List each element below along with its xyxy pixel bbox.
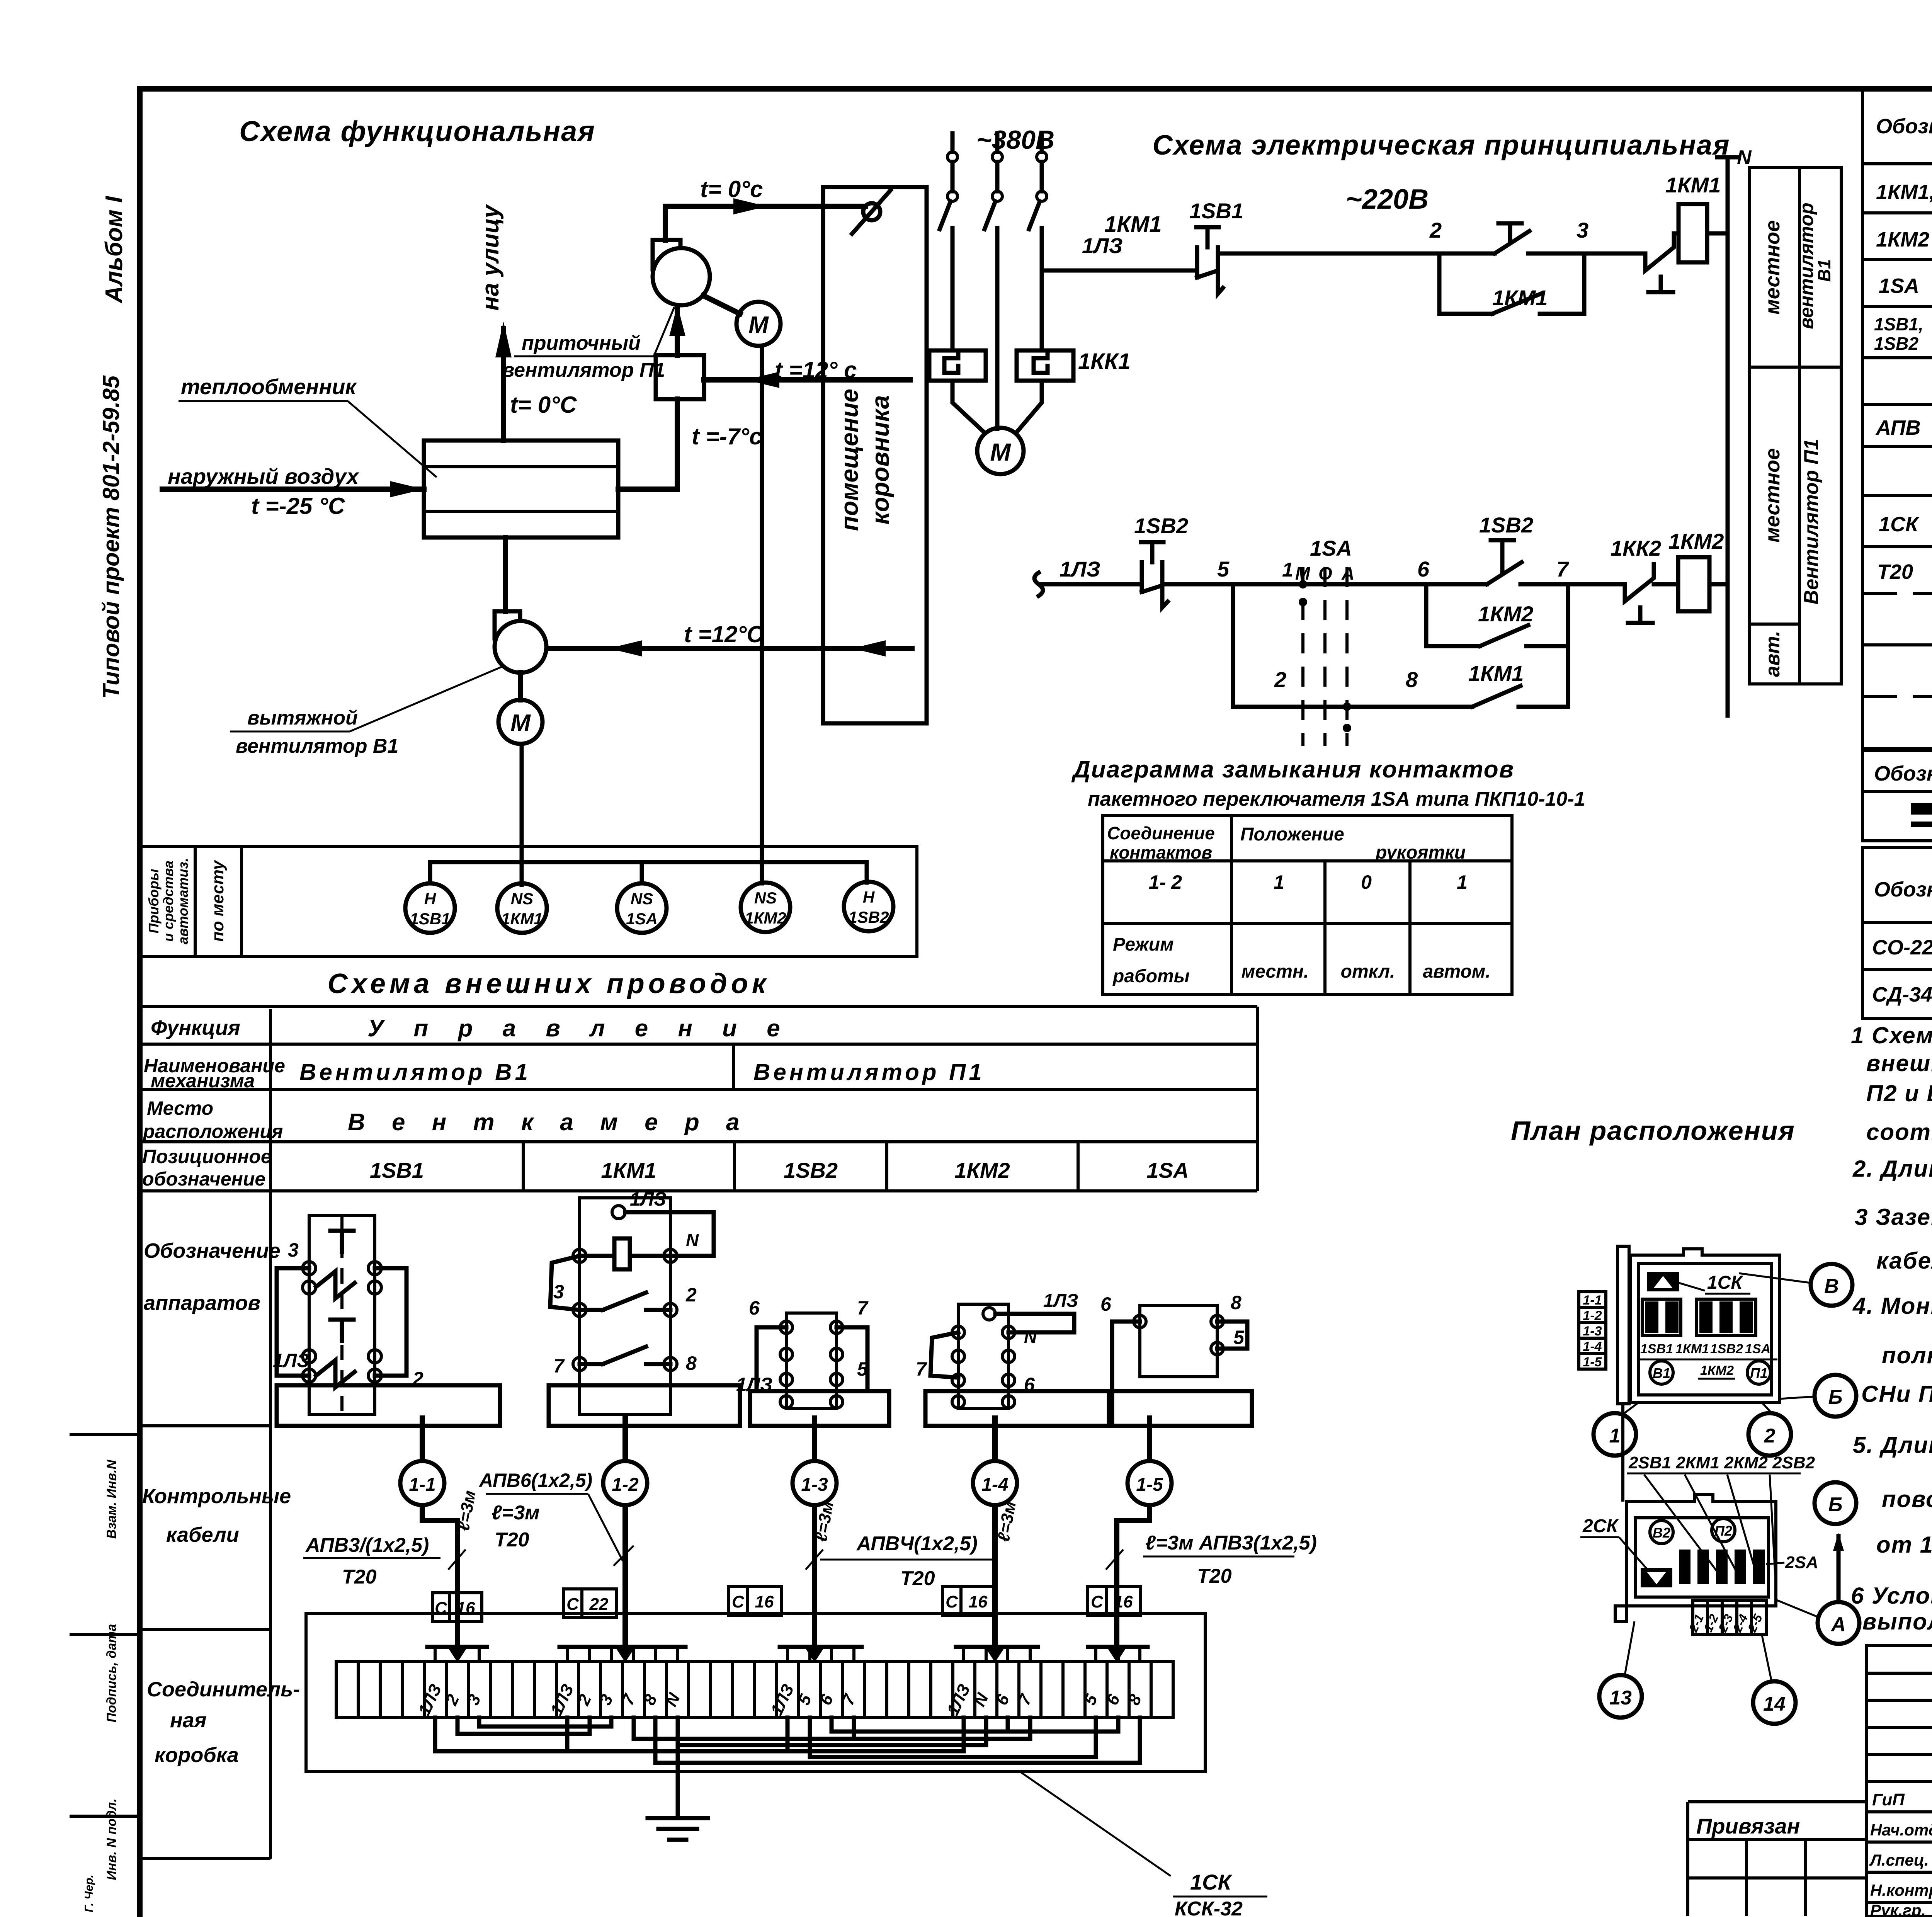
svg-text:1-3: 1-3 bbox=[801, 1475, 828, 1495]
svg-text:t =-25 °С: t =-25 °С bbox=[251, 493, 345, 519]
1SB1 button unit 2 actuator bbox=[340, 1320, 344, 1341]
svg-text:7: 7 bbox=[916, 1358, 927, 1380]
svg-text:механизма: механизма bbox=[151, 1070, 255, 1092]
svg-text:выполнены в соответствии с: выполнены в соответствии с ОСТ 36.27-77. bbox=[1862, 1609, 1932, 1635]
svg-text:NS: NS bbox=[511, 890, 533, 908]
motor M of P1 link bbox=[703, 296, 740, 314]
svg-text:1: 1 bbox=[1457, 871, 1468, 893]
wire to coil 1KM2 bbox=[1654, 582, 1678, 587]
margin tick bbox=[70, 1433, 140, 1436]
svg-text:Вентилятор П1: Вентилятор П1 bbox=[753, 1059, 985, 1085]
col sep B1/P1 bbox=[732, 1044, 735, 1090]
svg-text:1SА: 1SА bbox=[1147, 1158, 1189, 1182]
svg-text:N: N bbox=[1024, 1327, 1037, 1347]
svg-text:Вентилятор П1: Вентилятор П1 bbox=[1800, 439, 1823, 605]
coil 1KM2 to N bus bbox=[1709, 582, 1728, 587]
svg-text:1-2: 1-2 bbox=[612, 1475, 639, 1495]
mode band avt sep bbox=[1749, 623, 1799, 626]
1SA contact dots rung2 bbox=[1299, 580, 1307, 589]
phase C to motor bbox=[1018, 381, 1042, 431]
svg-text:1ЛЗ: 1ЛЗ bbox=[1082, 233, 1123, 258]
svg-text:8: 8 bbox=[1406, 667, 1418, 692]
control tap from phase C bbox=[1042, 269, 1193, 273]
svg-text:КСК-32: КСК-32 bbox=[1175, 1898, 1243, 1917]
svg-text:1-1: 1-1 bbox=[409, 1475, 435, 1495]
device box 1KM2 block bbox=[916, 1291, 1109, 1426]
outside air arrow line bbox=[162, 486, 424, 492]
svg-text:вентилятор П1: вентилятор П1 bbox=[502, 359, 665, 381]
phase C down wire bbox=[1040, 228, 1044, 350]
room rect pomeschenie korovnika bbox=[823, 187, 927, 723]
svg-text:6: 6 bbox=[749, 1297, 760, 1319]
svg-text:1SВ1: 1SВ1 bbox=[1640, 1342, 1673, 1356]
wiring table bottom bbox=[140, 1857, 270, 1860]
exhaust arrowhead up bbox=[495, 321, 512, 357]
svg-text:Т20: Т20 bbox=[1877, 560, 1913, 583]
phase A supply stub bbox=[951, 133, 955, 152]
phase C terminal circles bbox=[1037, 152, 1047, 162]
svg-text:1СК: 1СК bbox=[1190, 1870, 1233, 1894]
1KM2 terminals bbox=[952, 1326, 964, 1339]
stub to 1SA bbox=[640, 862, 644, 883]
small cells 2-1..2-5 bbox=[1693, 1601, 1766, 1635]
1SB1 terminals left bbox=[303, 1262, 316, 1275]
sheet top frame line bbox=[140, 86, 1932, 92]
circle 13 bbox=[1599, 1675, 1642, 1718]
phase A down wire bbox=[951, 228, 955, 350]
svg-text:СНи П Ш 34-74 Госстроя СССР.: СНи П Ш 34-74 Госстроя СССР. bbox=[1861, 1381, 1932, 1407]
motor M of B1 bbox=[498, 700, 543, 744]
svg-text:Обознач.: Обознач. bbox=[1874, 762, 1932, 785]
leader fan lines into lower cabinet bbox=[1644, 1475, 1719, 1575]
svg-text:Альбом I: Альбом I bbox=[101, 196, 128, 304]
svg-text:по месту: по месту bbox=[208, 859, 227, 942]
switch 1SA dashed line 1 bbox=[1301, 567, 1304, 746]
cable 1-3 line bbox=[812, 1418, 817, 1588]
row line 11 bbox=[1862, 695, 1932, 698]
svg-text:У п р а в л е н и е: У п р а в л е н и е bbox=[367, 1015, 792, 1042]
svg-text:Н: Н bbox=[863, 888, 875, 906]
diagram col sep 3 bbox=[1408, 861, 1412, 994]
svg-text:7: 7 bbox=[553, 1355, 565, 1377]
1KM1 coil bbox=[614, 1238, 630, 1269]
privyazan strip bbox=[1688, 1800, 1866, 1803]
wire node7 to thermal 1KK2 bbox=[1568, 582, 1625, 587]
circle B1 bbox=[1650, 1361, 1673, 1384]
svg-text:Типовой проект 801-2-59.85: Типовой проект 801-2-59.85 bbox=[98, 375, 124, 699]
svg-text:Рук.гр.: Рук.гр. bbox=[1870, 1901, 1926, 1917]
svg-text:и средства: и средства bbox=[160, 861, 176, 942]
lower cabinet inner bbox=[1635, 1518, 1769, 1597]
cable 1-1 line bbox=[422, 1418, 457, 1588]
svg-text:3: 3 bbox=[553, 1281, 564, 1303]
row line 4 bbox=[1862, 356, 1932, 359]
up-arrow block bbox=[1647, 1272, 1679, 1291]
pritochny leader bbox=[654, 307, 674, 356]
N bus bbox=[1726, 157, 1730, 716]
stop 1SB2 actuator bbox=[1150, 542, 1155, 562]
svg-text:1SА: 1SА bbox=[1310, 536, 1352, 560]
wire node3 to thermal contact bbox=[1584, 252, 1645, 256]
phase B down wire bbox=[995, 228, 1000, 429]
svg-text:1КМ1,: 1КМ1, bbox=[1876, 180, 1932, 204]
junction box outline bbox=[306, 1613, 1205, 1772]
svg-text:2: 2 bbox=[685, 1284, 697, 1306]
svg-text:1: 1 bbox=[1274, 871, 1284, 893]
svg-text:А: А bbox=[1830, 1613, 1846, 1636]
1L3 bus bbox=[433, 1718, 437, 1751]
pos cell sep 4 bbox=[1077, 1142, 1080, 1191]
aux contact 1KM1 branch bbox=[1439, 312, 1492, 316]
svg-text:1SВ1,: 1SВ1, bbox=[1874, 314, 1923, 334]
1KM1 top wire bbox=[625, 1212, 714, 1256]
svg-text:2. Длины трасс при нарезке: 2. Длины трасс при нарезке уточнить. bbox=[1852, 1156, 1932, 1182]
svg-text:1-3: 1-3 bbox=[1583, 1324, 1602, 1339]
thermal NC contact 1KK2 bbox=[1625, 564, 1654, 601]
1KM1 contact bottom bbox=[580, 1362, 603, 1366]
vytyazhnoy leader bbox=[350, 667, 502, 731]
aux contact 1KM2 branch bbox=[1426, 644, 1480, 648]
link 6 bbox=[830, 1718, 834, 1732]
1KM1 outer rect bbox=[580, 1198, 670, 1414]
svg-text:на улицу: на улицу bbox=[477, 204, 504, 311]
row line after Kontrolnye kabeli bbox=[140, 1628, 270, 1631]
1KM1 terminals bbox=[573, 1249, 586, 1262]
svg-text:Вентилятор В1: Вентилятор В1 bbox=[299, 1059, 531, 1085]
row line after Pozicionnoe bbox=[140, 1189, 1257, 1192]
svg-text:1SВ1: 1SВ1 bbox=[410, 910, 450, 928]
svg-text:1КМ2: 1КМ2 bbox=[1700, 1363, 1734, 1378]
stop button 1SB1 body bbox=[1195, 247, 1199, 277]
1SB2 bottom block bbox=[750, 1391, 889, 1426]
svg-text:1КМ1: 1КМ1 bbox=[1665, 173, 1721, 197]
mode band row sep B1/P1 bbox=[1749, 366, 1841, 369]
branch up to node7 bbox=[1566, 584, 1570, 707]
svg-text:2СК: 2СК bbox=[1582, 1516, 1619, 1536]
duct filter to supply fan bbox=[675, 307, 680, 355]
instrument NS 1SA bbox=[617, 883, 667, 933]
damper circle bbox=[863, 203, 880, 220]
svg-text:1: 1 bbox=[1609, 1425, 1621, 1447]
heat exchanger inner line 2 bbox=[424, 510, 618, 513]
pritochny underline bbox=[514, 356, 654, 357]
exhaust fan B1 circle bbox=[495, 621, 546, 673]
1KM1 contact mid bbox=[580, 1308, 603, 1312]
SEC notes bbox=[1851, 1022, 1932, 1635]
pos cell sep 3 bbox=[885, 1142, 888, 1191]
row line 9 bbox=[1862, 592, 1932, 595]
svg-text:7: 7 bbox=[857, 1297, 869, 1319]
svg-text:внешних проводок приведены дл: внешних проводок приведены для систем П1… bbox=[1866, 1050, 1932, 1076]
svg-text:t =12°С: t =12°С bbox=[684, 621, 764, 647]
cable entry combs bbox=[427, 1645, 487, 1649]
diagram col sep main bbox=[1230, 816, 1233, 994]
motor M circle bbox=[977, 428, 1024, 474]
phase C supply stub bbox=[1040, 133, 1044, 152]
svg-text:вентилятор В1: вентилятор В1 bbox=[236, 735, 398, 757]
1KM1 bottom block bbox=[549, 1385, 740, 1426]
1SA left rail bbox=[1112, 1322, 1140, 1391]
stub to 1SB1 bbox=[428, 862, 432, 883]
svg-text:5: 5 bbox=[1233, 1327, 1245, 1348]
row line after Oboznachenie apparatov bbox=[140, 1424, 270, 1427]
svg-text:Т20: Т20 bbox=[1197, 1565, 1232, 1587]
link N bbox=[676, 1718, 680, 1745]
1SA dots lower bbox=[1343, 703, 1351, 711]
wiring header col sep bbox=[269, 1009, 272, 1859]
svg-text:1SА: 1SА bbox=[626, 910, 658, 928]
svg-text:В е н т к а м е р а: В е н т к а м е р а bbox=[348, 1109, 749, 1136]
svg-text:расположения: расположения bbox=[142, 1121, 283, 1142]
ground drop bbox=[676, 1745, 680, 1818]
wiring table outer top bbox=[140, 1005, 1257, 1008]
svg-text:NS: NS bbox=[631, 890, 653, 908]
wire M B1 down to NS 1KM1 bbox=[520, 744, 524, 885]
svg-text:М: М bbox=[748, 312, 769, 338]
branch node6 down bbox=[1424, 584, 1429, 646]
phase B terminal circles bbox=[992, 152, 1002, 162]
aux contact 1KM1 lower branch bbox=[1472, 686, 1520, 707]
svg-text:Л.спец.: Л.спец. bbox=[1869, 1851, 1929, 1869]
SEC terminal strip bbox=[336, 1662, 1173, 1718]
1SA bottom block bbox=[1112, 1391, 1252, 1426]
svg-text:t =12° с: t =12° с bbox=[775, 357, 857, 383]
svg-text:7: 7 bbox=[1556, 557, 1570, 581]
instrument H 1SB2 bbox=[844, 882, 893, 931]
circle B upper bbox=[1815, 1375, 1856, 1417]
lower t=12 return line bbox=[546, 646, 912, 651]
wire 1SB1 to node2 bbox=[1218, 252, 1439, 256]
svg-text:Место: Место bbox=[147, 1097, 213, 1119]
svg-text:1СК: 1СК bbox=[1707, 1272, 1743, 1293]
exhaust duct up from exchanger bbox=[501, 328, 506, 441]
cable 1-5 line bbox=[1117, 1418, 1150, 1588]
svg-text:Схема функциональная: Схема функциональная bbox=[239, 115, 595, 147]
svg-text:Контрольные: Контрольные bbox=[142, 1485, 291, 1508]
heat exchanger inner line 1 bbox=[424, 465, 618, 468]
cable tails into junction box bbox=[455, 1586, 460, 1640]
svg-text:1-1: 1-1 bbox=[1583, 1293, 1602, 1308]
start button 1SB1 contact bbox=[1439, 252, 1495, 256]
svg-text:Нач.отд.: Нач.отд. bbox=[1870, 1821, 1932, 1839]
svg-text:СО-22: СО-22 bbox=[1872, 936, 1932, 959]
svg-text:теплообменник: теплообменник bbox=[181, 374, 357, 399]
svg-text:Т20: Т20 bbox=[342, 1566, 377, 1588]
row line 6 bbox=[1862, 445, 1932, 448]
svg-text:13: 13 bbox=[1609, 1687, 1632, 1709]
row line 3 bbox=[1862, 305, 1932, 308]
svg-text:Инв. N подл.: Инв. N подл. bbox=[104, 1798, 119, 1880]
svg-text:Соединение: Соединение bbox=[1107, 823, 1215, 843]
svg-text:~220В: ~220В bbox=[1346, 184, 1429, 215]
wire to node5 bbox=[1162, 582, 1303, 587]
1SB2 left rail bbox=[757, 1327, 786, 1391]
svg-text:1SВ2: 1SВ2 bbox=[848, 908, 889, 926]
row line 2 bbox=[1862, 258, 1932, 261]
svg-text:местное: местное bbox=[1761, 448, 1784, 543]
table3 row line bbox=[1862, 968, 1932, 971]
rung2 break squiggle bbox=[1034, 573, 1043, 596]
circle A bbox=[1818, 1602, 1859, 1644]
leader to 1 circle bbox=[1623, 1403, 1638, 1414]
switch 1SA dashed line 3 bbox=[1345, 567, 1349, 746]
svg-text:1ЛЗ: 1ЛЗ bbox=[273, 1350, 309, 1371]
leader to 13 bbox=[1625, 1621, 1634, 1675]
circle V bbox=[1811, 1264, 1852, 1306]
svg-text:1SА: 1SА bbox=[1879, 274, 1919, 298]
contactor 1KM1 main blade A bbox=[940, 201, 951, 229]
svg-text:1SА: 1SА bbox=[1745, 1342, 1770, 1356]
1KM2 top terminal bbox=[983, 1308, 995, 1320]
instruments bus bbox=[430, 860, 867, 864]
branch down at node2 bbox=[1437, 253, 1442, 314]
1KM2 inner rect bbox=[958, 1304, 1009, 1408]
svg-text:Обозначение: Обозначение bbox=[144, 1239, 281, 1262]
svg-text:3: 3 bbox=[288, 1239, 299, 1261]
svg-text:1КМ2: 1КМ2 bbox=[745, 909, 786, 927]
table3 header line bbox=[1862, 921, 1932, 924]
teploobmennik leader bbox=[348, 401, 437, 477]
svg-text:откл.: откл. bbox=[1341, 961, 1395, 982]
svg-text:16: 16 bbox=[969, 1592, 988, 1611]
svg-text:В2: В2 bbox=[1653, 1525, 1670, 1541]
cable 1-4 line bbox=[992, 1418, 998, 1588]
svg-text:16: 16 bbox=[755, 1592, 774, 1611]
wiring table right edge bbox=[1256, 1007, 1259, 1191]
svg-text:N: N bbox=[686, 1230, 699, 1250]
rung2 wire start bbox=[1040, 582, 1139, 587]
row line 7 bbox=[1862, 494, 1932, 497]
damper slash bbox=[852, 190, 891, 234]
motor M of P1 bbox=[736, 302, 781, 346]
lower cabinet link bar bbox=[1621, 1404, 1624, 1502]
link 2 bbox=[456, 1718, 460, 1734]
svg-text:контактов: контактов bbox=[1110, 842, 1212, 862]
svg-text:Соединитель-: Соединитель- bbox=[147, 1678, 300, 1701]
svg-text:Обознач: Обознач bbox=[1876, 115, 1932, 138]
device box 1SB2 block bbox=[736, 1297, 889, 1426]
svg-text:1 Схемы функциональная, электр: 1 Схемы функциональная, электрическая пр… bbox=[1851, 1022, 1932, 1048]
title block outer bbox=[1866, 1646, 1932, 1916]
svg-text:1КМ2: 1КМ2 bbox=[954, 1158, 1010, 1182]
svg-text:22: 22 bbox=[589, 1595, 609, 1614]
svg-text:6 Условные обозначения на ср: 6 Условные обозначения на средства автом… bbox=[1851, 1583, 1932, 1609]
svg-text:Положение: Положение bbox=[1240, 824, 1344, 845]
cable circle 1-3 bbox=[793, 1461, 837, 1505]
svg-text:t =-7°с: t =-7°с bbox=[692, 424, 762, 449]
teploobmennik underline bbox=[179, 400, 348, 402]
svg-text:1КК2: 1КК2 bbox=[1611, 536, 1661, 560]
down-arrow block bbox=[1641, 1568, 1672, 1587]
svg-text:аппаратов: аппаратов bbox=[144, 1291, 260, 1315]
svg-text:автом.: автом. bbox=[1423, 961, 1490, 982]
leader to V circle bbox=[1739, 1273, 1811, 1283]
diagram col sep 2 bbox=[1323, 861, 1327, 994]
svg-text:АПВ6(1х2,5): АПВ6(1х2,5) bbox=[478, 1470, 592, 1491]
leader to 14 bbox=[1762, 1635, 1772, 1682]
svg-text:1SВ2: 1SВ2 bbox=[1134, 514, 1188, 538]
svg-text:1КМ2: 1КМ2 bbox=[1478, 602, 1533, 626]
svg-text:1КМ1: 1КМ1 bbox=[1492, 286, 1548, 310]
svg-text:С: С bbox=[566, 1595, 579, 1614]
svg-text:3: 3 bbox=[1577, 218, 1588, 242]
svg-text:1КМ1: 1КМ1 bbox=[1468, 661, 1524, 685]
svg-text:6: 6 bbox=[1100, 1293, 1112, 1315]
thermal relay 1KK1 heater C box bbox=[1017, 350, 1073, 381]
svg-text:С: С bbox=[1091, 1592, 1104, 1611]
svg-text:М: М bbox=[990, 438, 1011, 466]
vytyazhnoy underline bbox=[230, 731, 350, 733]
svg-text:2: 2 bbox=[1429, 218, 1442, 242]
svg-text:В: В bbox=[1824, 1275, 1839, 1298]
lower t=12 arrowhead 2 bbox=[852, 640, 886, 657]
margin tick bbox=[70, 1633, 140, 1636]
svg-text:АПВ: АПВ bbox=[1875, 416, 1921, 439]
svg-text:Т20: Т20 bbox=[900, 1567, 935, 1590]
svg-text:2: 2 bbox=[1274, 667, 1286, 692]
coil 1KM1 bbox=[1679, 204, 1707, 262]
contactor 1KM1 main blade C bbox=[1029, 201, 1040, 229]
header bottom line bbox=[1862, 162, 1932, 165]
phase A to motor bbox=[952, 381, 983, 431]
svg-text:8: 8 bbox=[1231, 1292, 1242, 1313]
svg-text:1SВ2: 1SВ2 bbox=[784, 1158, 838, 1182]
svg-text:t= 0°С: t= 0°С bbox=[510, 392, 577, 418]
row line after Funkcia bbox=[140, 1043, 1257, 1046]
margin tick bbox=[70, 1815, 140, 1818]
phase B supply stub bbox=[995, 133, 1000, 152]
svg-text:0: 0 bbox=[1361, 871, 1372, 893]
instrument H 1SB1 bbox=[405, 883, 455, 933]
leader to B circle upper bbox=[1779, 1397, 1815, 1399]
svg-text:В1: В1 bbox=[1653, 1365, 1670, 1381]
svg-text:С: С bbox=[946, 1592, 958, 1611]
exhaust fan B1 square bbox=[495, 611, 520, 638]
cable circle 1-5 bbox=[1128, 1461, 1172, 1505]
1SB1 bottom block bbox=[277, 1385, 500, 1426]
svg-text:1-5: 1-5 bbox=[1583, 1355, 1602, 1369]
svg-text:АПВЧ(1х2,5): АПВЧ(1х2,5) bbox=[856, 1533, 978, 1555]
circle P2 bbox=[1712, 1519, 1735, 1542]
start button 1SB2 contact bbox=[1426, 582, 1487, 587]
lower t=12 arrowhead 1 bbox=[609, 640, 642, 657]
svg-text:1: 1 bbox=[1282, 559, 1293, 581]
svg-text:П2 и В2 схемы аналогичны с: П2 и В2 схемы аналогичны с заменой индек… bbox=[1866, 1080, 1932, 1106]
N bus top bar bbox=[1717, 155, 1738, 160]
thermal relay 1KK1 heater A box bbox=[929, 350, 986, 381]
1SB1 inner rect bbox=[309, 1215, 375, 1414]
1SB2 terminals bbox=[780, 1321, 793, 1334]
svg-text:Подпись, дата: Подпись, дата bbox=[104, 1624, 119, 1723]
svg-text:наружный воздух: наружный воздух bbox=[168, 464, 360, 488]
svg-text:5: 5 bbox=[857, 1358, 868, 1380]
svg-text:1КМ1: 1КМ1 bbox=[501, 910, 543, 928]
1SB2 inner rect bbox=[786, 1313, 837, 1408]
svg-text:2SВ1 2КМ1 2КМ2 2SВ2: 2SВ1 2КМ1 2КМ2 2SВ2 bbox=[1628, 1453, 1815, 1472]
instrument NS 1KM2 bbox=[741, 883, 790, 932]
upper cabinet outer bbox=[1630, 1249, 1779, 1402]
1SA right rail bbox=[1217, 1322, 1247, 1349]
start button actuator bbox=[1508, 223, 1512, 240]
svg-text:С: С bbox=[732, 1592, 745, 1611]
svg-text:полнить согласно строительны: полнить согласно строительным нормам и п… bbox=[1882, 1342, 1932, 1368]
circle 1 bbox=[1594, 1413, 1636, 1456]
cable circle 1-2 bbox=[603, 1461, 647, 1505]
row line after Naimenovanie bbox=[140, 1088, 1257, 1091]
link fan B1 to M bbox=[518, 673, 523, 700]
pos cell sep 2 bbox=[733, 1142, 736, 1191]
supply fan P1 circle bbox=[653, 248, 710, 305]
